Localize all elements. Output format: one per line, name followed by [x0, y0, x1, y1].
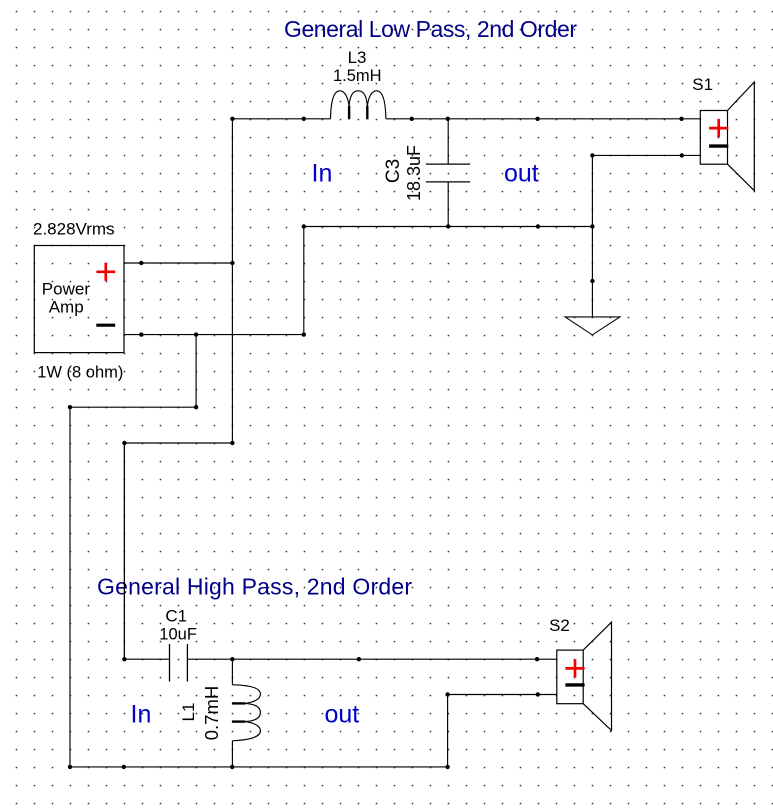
junction L1 top [230, 657, 234, 661]
speaker S2 minus symbol [565, 683, 584, 686]
junction y226 wire segment [536, 224, 540, 228]
junction bottom wire right corner [445, 765, 449, 769]
junction ground wire [590, 279, 594, 283]
junction power amp minus pin [139, 332, 143, 336]
svg-text:In: In [131, 701, 152, 729]
speaker S1 [700, 82, 754, 191]
svg-text:18.3uF: 18.3uF [404, 145, 424, 201]
svg-text:In: In [312, 160, 333, 188]
power amp minus symbol [96, 324, 115, 327]
inductor L1 valley ticks [232, 702, 246, 704]
svg-text:out: out [504, 160, 539, 188]
junction S1 minus lead corner [590, 153, 594, 157]
svg-text:0.7mH: 0.7mH [201, 686, 222, 741]
inductor L1 coil [232, 685, 260, 741]
svg-text:General Low Pass, 2nd Order: General Low Pass, 2nd Order [284, 16, 577, 42]
junction minus wire / x196 vertical [194, 332, 198, 336]
wire high pass input to C1 [124, 658, 169, 660]
junction y226 wire left end [302, 224, 306, 228]
wire vertical x=124.4 overlay (drawn above title) [123, 443, 125, 659]
inductor L3 coil [331, 91, 386, 119]
wire vertical x=447.6 [447, 695, 449, 767]
svg-text:L3: L3 [348, 48, 367, 67]
junction y226 wire / C3 lead [446, 224, 450, 228]
junction S2 minus lead corner [445, 692, 449, 696]
junction bottom wire / L1 bottom [230, 765, 234, 769]
junction plus pin / vertical bus [230, 261, 234, 265]
wire top net: main horizontal left of L3 [232, 118, 330, 120]
svg-text:S1: S1 [692, 75, 713, 94]
junction S2 minus lead [536, 692, 540, 696]
wire vertical x=303.8 [303, 227, 305, 335]
junction top wire / S1 plus lead [679, 117, 683, 121]
speaker S1 plus symbol [709, 119, 728, 137]
junction y443 wire / vertical bus [230, 441, 234, 445]
speaker S2 [557, 622, 612, 730]
junction S1 minus lead [680, 153, 684, 157]
junction top wire segment A [302, 117, 306, 121]
junction high pass input [122, 657, 126, 661]
capacitor C3 plates [426, 163, 470, 165]
wire speaker S2 minus lead [448, 694, 557, 696]
inductor L3 valley ticks [348, 106, 350, 120]
junction power amp plus pin [139, 261, 143, 265]
junction top wire / vertical bus [230, 117, 234, 121]
svg-text:L1: L1 [179, 703, 198, 722]
ground symbol [565, 317, 620, 335]
junction minus wire corner [302, 332, 306, 336]
svg-text:1W (8 ohm): 1W (8 ohm) [37, 364, 123, 382]
svg-text:10uF: 10uF [159, 625, 197, 643]
wire power amp plus pin [124, 262, 232, 264]
svg-text:General High Pass, 2nd Order: General High Pass, 2nd Order [97, 573, 412, 599]
svg-text:C1: C1 [165, 607, 187, 626]
svg-text:C3: C3 [383, 159, 404, 183]
junction top wire segment C [535, 117, 539, 121]
wire vertical x=196 [195, 335, 197, 408]
junction top wire segment B [410, 117, 414, 121]
wire vertical left bus x=70 [69, 407, 71, 767]
wire vertical bus x=232 from top wire down [231, 119, 233, 443]
wire top net: main horizontal right of L3 to speaker S1 [386, 118, 700, 120]
power amp V1 box [34, 246, 124, 353]
speaker S1 minus symbol [709, 144, 728, 147]
junction bottom wire / left bus [68, 765, 72, 769]
wire speaker S1 minus lead [592, 154, 700, 156]
svg-text:1.5mH: 1.5mH [333, 67, 382, 85]
svg-text:2.828Vrms: 2.828Vrms [33, 220, 115, 239]
wire L1 bottom lead [231, 741, 233, 767]
svg-text:out: out [325, 701, 360, 729]
svg-text:Amp: Amp [49, 298, 84, 317]
junction y407 wire / left bus [68, 405, 72, 409]
junction bottom wire segment A [122, 765, 126, 769]
wire horizontal y=226.5 [304, 226, 593, 228]
svg-text:Power: Power [42, 279, 91, 298]
junction y226 wire / ground branch [590, 224, 594, 228]
wire power amp minus pin [124, 334, 304, 336]
capacitor C1 plates [169, 644, 171, 682]
junction out wire segment A [357, 657, 361, 661]
wire bottom horizontal y=766.9 [70, 766, 448, 768]
speaker S2 plus symbol [565, 659, 584, 677]
wire C3 bottom lead [447, 182, 449, 227]
wire L1 top lead [231, 659, 233, 685]
wire horizontal y=407.2 [70, 406, 196, 408]
junction y443 wire left end [122, 441, 126, 445]
wire C1 right to speaker S2 plus [187, 658, 556, 660]
junction y407 wire / x196 vertical [194, 405, 198, 409]
wire C3 top lead [447, 119, 449, 164]
junction out wire / S2 plus lead [535, 657, 539, 661]
power amp plus symbol [96, 263, 115, 281]
wire vertical x=124.4 down to high pass input [123, 443, 125, 659]
wire vertical x=592.4 to ground [591, 155, 593, 317]
junction top wire / C3 lead [446, 117, 450, 121]
svg-text:S2: S2 [549, 616, 570, 635]
wire horizontal y=443 [124, 442, 232, 444]
